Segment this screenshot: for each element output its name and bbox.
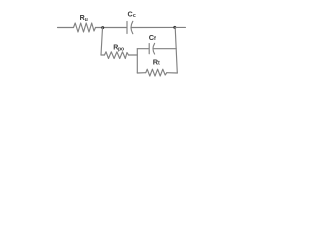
capacitor Cf	[148, 44, 150, 54]
wire inner loop top lead	[137, 48, 148, 50]
wire Cf to right vertical	[154, 48, 177, 50]
label Rpo	[113, 45, 124, 53]
wire inner loop left vertical	[136, 49, 138, 73]
svg-text:f: f	[154, 36, 156, 42]
svg-text:c: c	[133, 13, 136, 19]
label Ru	[80, 15, 88, 23]
wire Rpo to inner loop	[129, 54, 138, 56]
wire vertical node A down	[101, 28, 103, 55]
label Rt	[153, 57, 160, 66]
node B junction	[173, 26, 176, 29]
wire lower branch lead	[101, 54, 105, 56]
wire node A to Cc	[96, 27, 127, 29]
wire Cc to node B	[132, 26, 175, 28]
wire right lead	[175, 26, 186, 28]
svg-text:u: u	[85, 17, 88, 23]
resistor Rt	[146, 69, 167, 76]
svg-text:t: t	[158, 61, 160, 67]
label Cc	[128, 9, 136, 19]
label Cf	[149, 33, 156, 42]
resistor Ru	[74, 23, 96, 32]
resistor Rpo	[105, 52, 129, 59]
svg-text:po: po	[118, 47, 124, 53]
wire inner loop bottom lead	[137, 72, 146, 74]
node A junction	[101, 26, 104, 29]
wire left lead	[58, 27, 74, 29]
wire Rt to right vertical	[167, 72, 178, 74]
wire right vertical node B down	[175, 27, 177, 73]
capacitor Cc	[126, 22, 128, 34]
